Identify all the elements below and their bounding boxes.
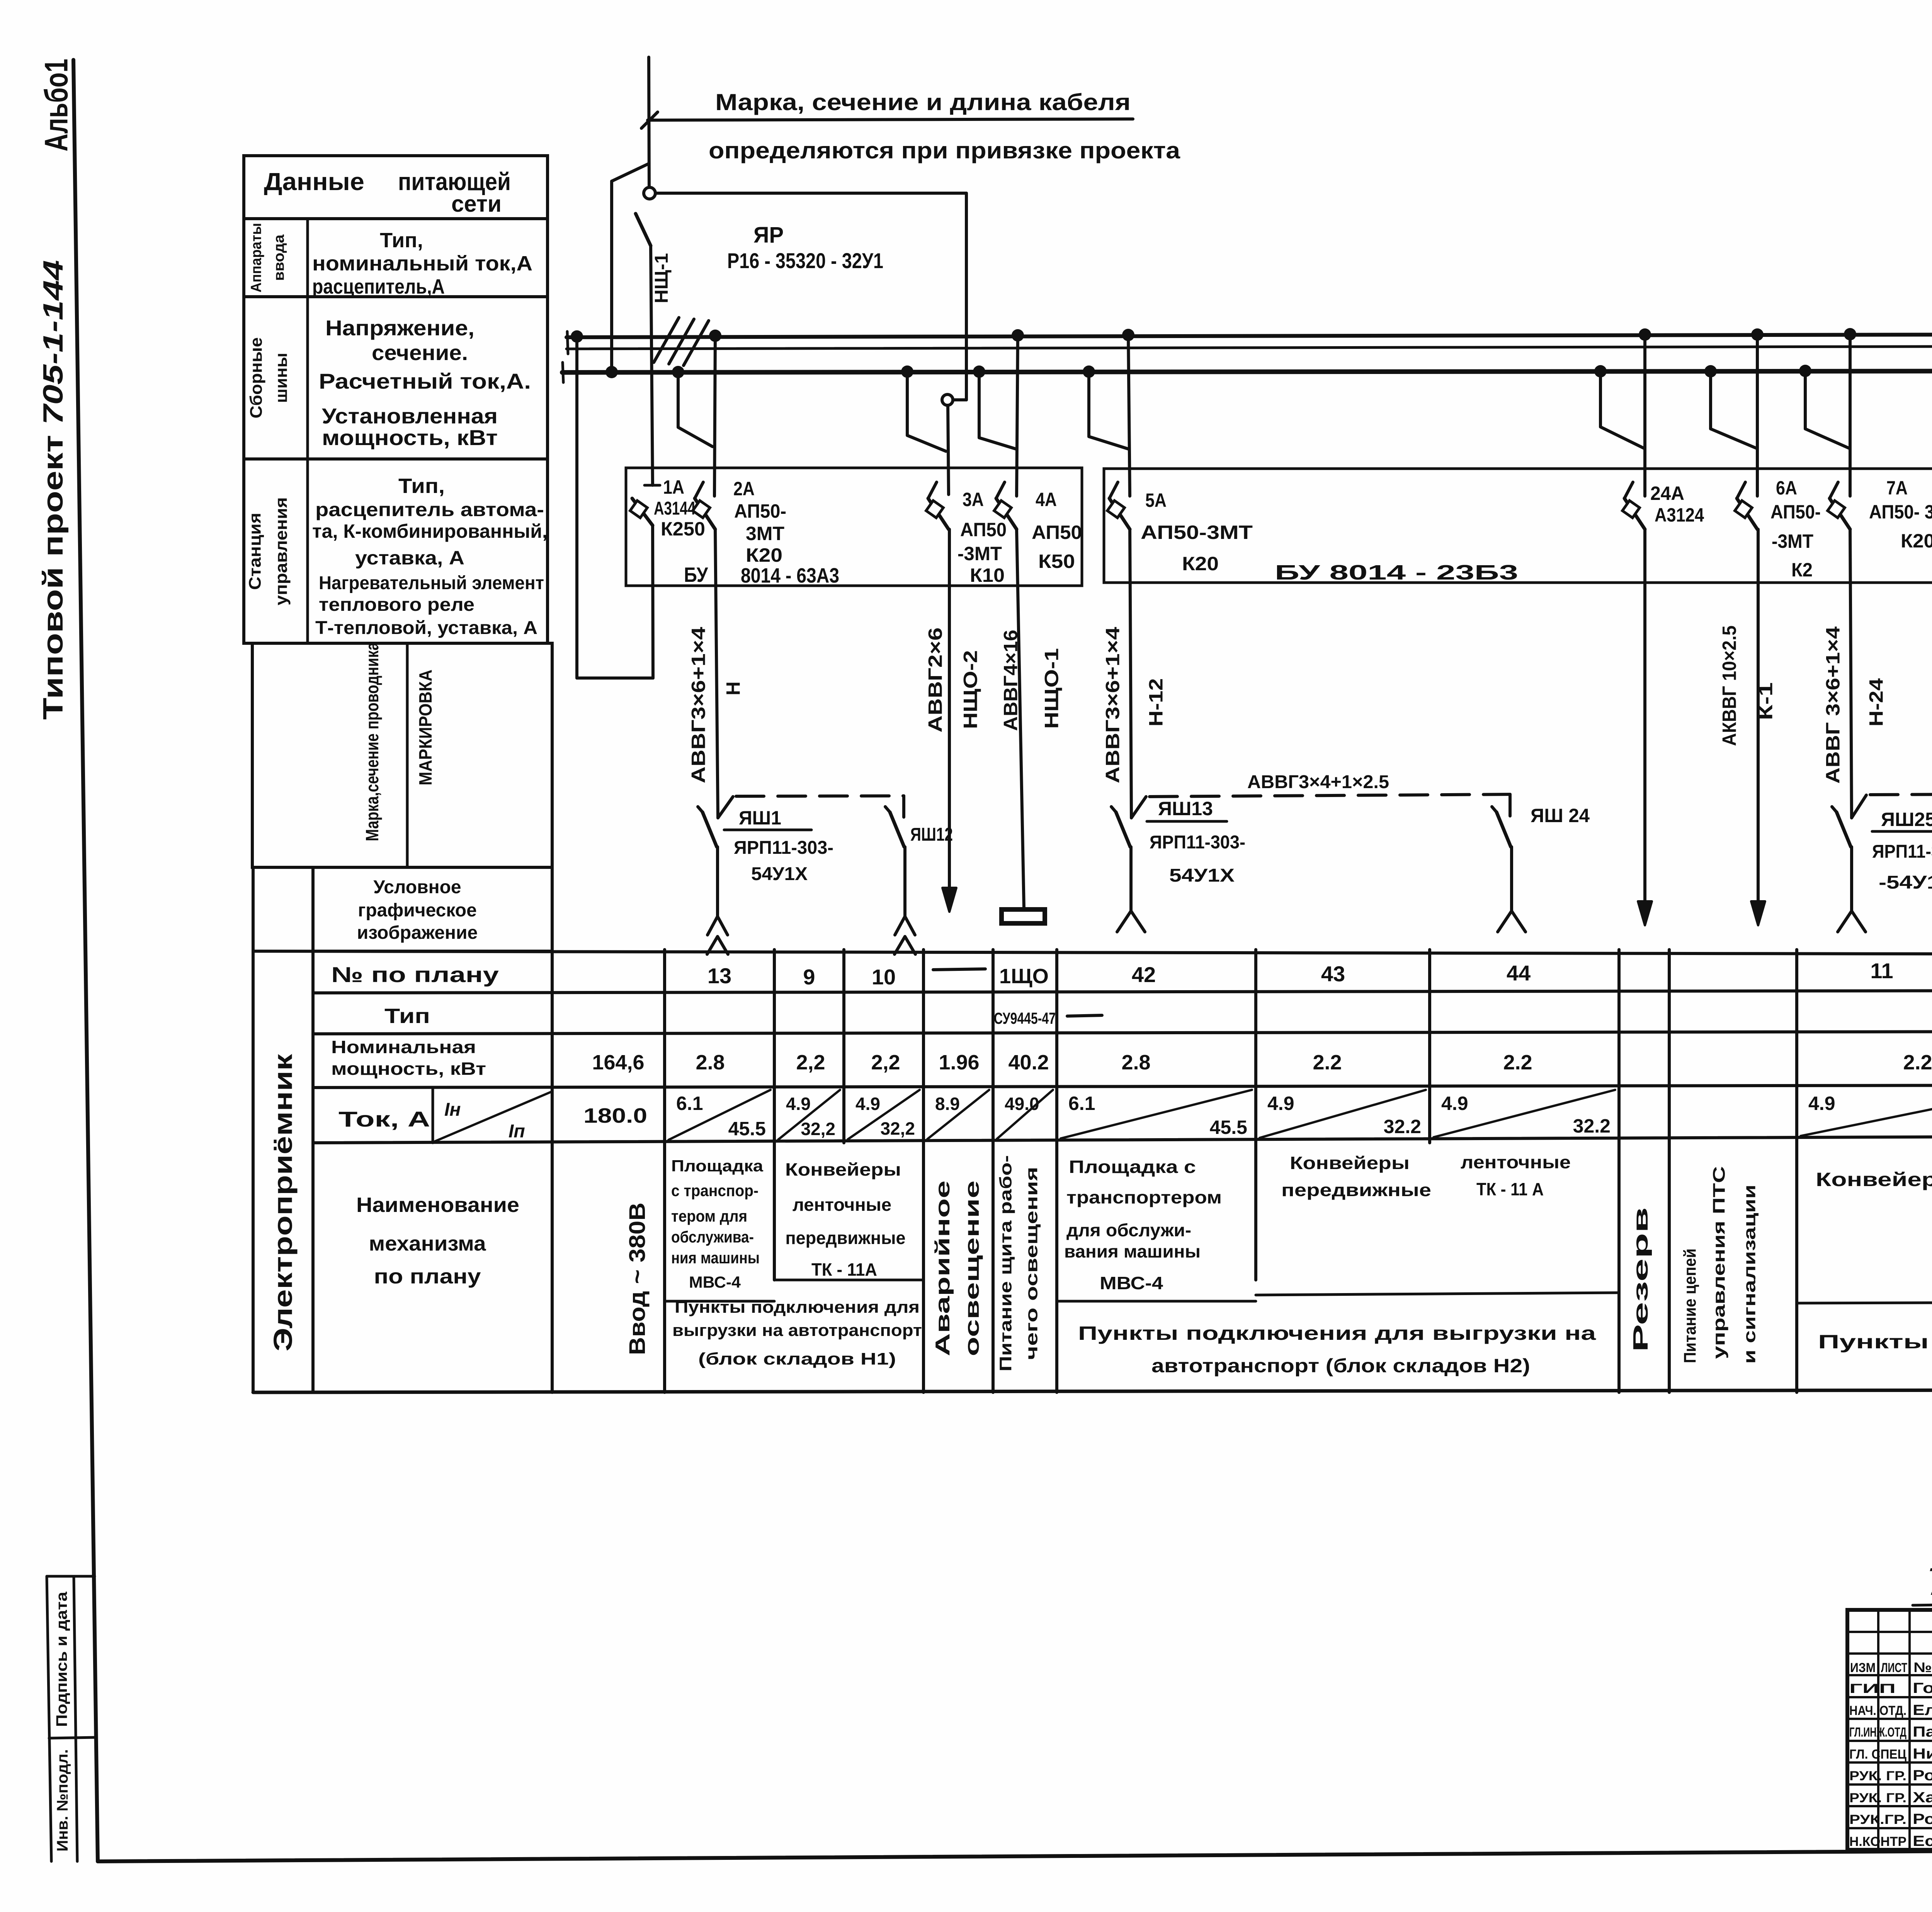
svg-text:32,2: 32,2: [880, 1118, 915, 1139]
feeder 7А drop from double bus: [1849, 334, 1852, 496]
cable break slash on incoming line: [641, 112, 658, 128]
svg-text:Н.КОНТР: Н.КОНТР: [1849, 1834, 1906, 1849]
header row: Аппараты ввода: [244, 219, 548, 297]
sheet frame bottom border line: [98, 1847, 1932, 1861]
current cell diagonal: [927, 1090, 989, 1139]
svg-text:МАРКИРОВКА: МАРКИРОВКА: [415, 670, 435, 785]
svg-text:Пункты подключения для: Пункты подключения для: [675, 1298, 920, 1317]
svg-text:Условное: Условное: [373, 877, 461, 897]
svg-text:с транспор-: с транспор-: [671, 1181, 759, 1200]
svg-text:Конвейеры ленточные передвиж: Конвейеры ленточные передвиж-: [1816, 1169, 1932, 1190]
plug connector symbol: [1850, 847, 1853, 911]
svg-text:ЯШ12: ЯШ12: [910, 824, 953, 845]
svg-text:номинальный ток,А: номинальный ток,А: [312, 252, 532, 275]
svg-text:45.5: 45.5: [728, 1118, 766, 1140]
table row line under мощность: [313, 1084, 1932, 1088]
title block vertical lines (left part): [1877, 1610, 1879, 1850]
header table: Данные питающей сети box: [244, 156, 548, 219]
svg-text:Ток, А: Ток, А: [338, 1107, 430, 1131]
svg-text:ленточные: ленточные: [793, 1195, 891, 1215]
svg-text:управления: управления: [272, 497, 291, 605]
svg-text:44: 44: [1507, 961, 1531, 985]
feeder 6А drop from double bus: [1756, 335, 1759, 496]
svg-text:2,2: 2,2: [796, 1051, 825, 1074]
feeder arrow head: [948, 529, 951, 889]
dashed cable riser to ЯШ1: [718, 797, 733, 818]
current cell diagonal: [848, 1090, 920, 1139]
svg-text:ТК - 11А: ТК - 11А: [811, 1259, 877, 1280]
svg-text:ЯШ25: ЯШ25: [1881, 809, 1932, 830]
dashed cable riser to ЯШ13: [1131, 797, 1146, 818]
plug connector symbol: [1129, 847, 1133, 911]
svg-text:расцепитель автома-: расцепитель автома-: [315, 499, 544, 520]
svg-text:№ по плану: № по плану: [331, 962, 499, 987]
svg-text:К20: К20: [1182, 553, 1219, 574]
svg-text:6.1: 6.1: [1068, 1093, 1095, 1114]
svg-text:Iп: Iп: [509, 1121, 525, 1142]
svg-text:1А: 1А: [663, 476, 684, 498]
table top line: [253, 951, 1932, 955]
svg-text:обслужива-: обслужива-: [671, 1228, 754, 1246]
svg-text:АП50-: АП50-: [1770, 501, 1821, 523]
svg-text:К10: К10: [970, 564, 1005, 586]
junction dots on double bus: [571, 330, 583, 343]
svg-text:32.2: 32.2: [1573, 1115, 1611, 1137]
feeder 2А drop from double bus: [714, 336, 715, 496]
svg-text:ГИП: ГИП: [1849, 1681, 1896, 1696]
tap jog 4А from single bus: [979, 372, 1016, 449]
svg-text:сети: сети: [451, 191, 502, 217]
plug connector symbol: [716, 847, 719, 916]
breaker blade top tick: [996, 482, 1005, 498]
svg-text:6А: 6А: [1776, 477, 1797, 499]
panel symbol 1ЩО (bar): [1002, 909, 1045, 923]
svg-text:СУ9445-47: СУ9445-47: [994, 1009, 1056, 1027]
svg-text:ленточные: ленточные: [1461, 1152, 1571, 1172]
svg-text:Напряжение,: Напряжение,: [325, 316, 474, 340]
svg-text:для обслужи-: для обслужи-: [1066, 1220, 1191, 1240]
svg-text:Станция: Станция: [246, 513, 265, 590]
svg-text:164,6: 164,6: [592, 1051, 644, 1074]
plug connector symbol: [1510, 847, 1513, 911]
svg-text:Установленная: Установленная: [322, 404, 498, 428]
busbar: double line (lower): [566, 345, 1932, 349]
svg-text:АВВГ 3×6+1×4: АВВГ 3×6+1×4: [1822, 626, 1844, 783]
svg-text:ГЛ. СПЕЦ: ГЛ. СПЕЦ: [1849, 1747, 1906, 1762]
svg-text:Марка,сечение проводника: Марка,сечение проводника: [362, 642, 382, 841]
ЯР wire down to 3А feeder: [965, 193, 968, 400]
breaker blade: [1624, 498, 1645, 529]
svg-text:определяются при привязке п: определяются при привязке проекта: [709, 138, 1180, 163]
svg-text:ЯРП11-303: ЯРП11-303: [1872, 841, 1932, 862]
svg-text:РУК. ГР.: РУК. ГР.: [1849, 1791, 1906, 1805]
sub-row split line right (пункты ж.д.): [1797, 1301, 1932, 1303]
tap jog 24А from single bus: [1600, 371, 1644, 448]
svg-text:8.9: 8.9: [935, 1094, 960, 1114]
svg-text:БУ 8014 - 23Б3: БУ 8014 - 23Б3: [1275, 561, 1518, 584]
svg-text:49.0: 49.0: [1005, 1094, 1039, 1114]
sub-row split line left (пункты подключения Н1): [665, 1300, 774, 1303]
feeder 4А drop from double bus: [1017, 335, 1018, 496]
svg-text:автотранспорт (блок складов: автотранспорт (блок складов Н2): [1151, 1355, 1530, 1377]
svg-text:транспортером: транспортером: [1066, 1187, 1222, 1207]
wire 5А below БУ box: [1130, 529, 1131, 818]
svg-text:Наименование: Наименование: [356, 1193, 519, 1217]
header row: Условное графическое изображение box: [313, 867, 552, 951]
svg-text:32.2: 32.2: [1384, 1116, 1421, 1137]
svg-text:Тип: Тип: [384, 1004, 430, 1028]
junction dots on single bus: [605, 366, 618, 378]
breaker 1А incoming: [645, 484, 660, 487]
svg-text:К50: К50: [1038, 551, 1075, 572]
dashed cable riser to ЯШ25: [1852, 795, 1866, 818]
table column lines: [551, 643, 554, 1392]
table row line under Ток,А: [313, 1134, 1932, 1143]
tap jog 6А from single bus: [1711, 371, 1756, 448]
svg-text:Н: Н: [723, 682, 744, 695]
svg-text:К20: К20: [746, 544, 782, 566]
svg-text:4.9: 4.9: [1441, 1093, 1468, 1114]
svg-text:выгрузки на автотранспорт: выгрузки на автотранспорт: [672, 1321, 922, 1340]
breaker blade: [1830, 498, 1850, 529]
feeder arrow head: [1757, 529, 1760, 902]
control station box БУ 8014-63А3: [626, 468, 1082, 586]
svg-text:8014 - 63А3: 8014 - 63А3: [741, 564, 839, 587]
svg-text:Есина: Есина: [1913, 1833, 1932, 1849]
svg-text:3МТ: 3МТ: [746, 523, 784, 544]
breaker release square: [1828, 501, 1845, 518]
svg-text:54У1Х: 54У1Х: [751, 864, 808, 884]
svg-text:Н-24: Н-24: [1866, 678, 1887, 726]
wire 4А below БУ box to щит 1ЩО: [1017, 529, 1024, 909]
svg-text:ЛИСТ: ЛИСТ: [1881, 1660, 1907, 1675]
svg-text:Пункты подключения для: Пункты подключения для выгрузки на: [1078, 1322, 1597, 1344]
wire from node to 3А breaker: [948, 405, 949, 495]
svg-text:Iн: Iн: [444, 1100, 461, 1120]
svg-text:НЩО-1: НЩО-1: [1041, 648, 1063, 729]
svg-text:9: 9: [803, 965, 815, 989]
breaker release square: [630, 501, 648, 518]
wire: 1А down and loop to double bus: [653, 525, 653, 678]
svg-text:уставка, А: уставка, А: [355, 547, 464, 569]
ЯШ switch blade: [890, 812, 904, 847]
svg-text:К250: К250: [661, 518, 705, 540]
svg-text:АВВГ2×6: АВВГ2×6: [925, 627, 946, 733]
svg-text:НАЧ. ОТД.: НАЧ. ОТД.: [1849, 1703, 1906, 1718]
ЯШ switch blade: [1497, 812, 1511, 847]
wire 7А below БУ box: [1850, 529, 1852, 818]
svg-text:40.2: 40.2: [1008, 1051, 1049, 1074]
svg-text:изображение: изображение: [357, 923, 478, 943]
breaker blade top tick: [928, 482, 937, 498]
svg-text:БУ: БУ: [684, 563, 708, 586]
svg-text:5А: 5А: [1145, 489, 1167, 511]
svg-text:Питание щита рабо-: Питание щита рабо-: [997, 1155, 1015, 1372]
ЯШ24 corner piece: [1509, 794, 1512, 816]
svg-text:-54У1Х: -54У1Х: [1879, 872, 1932, 893]
busbar: double line (upper): [566, 333, 1932, 337]
svg-text:4.9: 4.9: [855, 1094, 880, 1114]
svg-text:ЯРП11-303-: ЯРП11-303-: [734, 838, 833, 858]
current cell diagonal: [778, 1090, 840, 1140]
svg-text:А3144: А3144: [654, 498, 696, 519]
main single busbar: [562, 371, 1932, 372]
svg-text:механизма: механизма: [369, 1232, 486, 1255]
note underline: [648, 119, 1133, 120]
svg-text:мощность, кВт: мощность, кВт: [322, 425, 498, 450]
svg-text:ния машины: ния машины: [671, 1249, 760, 1267]
breaker release square: [994, 501, 1012, 518]
single bus left end tick: [563, 362, 563, 382]
current cell diagonal: [668, 1090, 770, 1140]
header row: Сборные шины: [244, 297, 548, 459]
breaker release square: [1107, 501, 1125, 518]
svg-text:11: 11: [1870, 959, 1893, 983]
breaker release square: [1622, 501, 1640, 518]
svg-text:Типовой проект 705-1-144: Типовой проект 705-1-144: [38, 260, 69, 720]
svg-text:передвижные: передвижные: [1281, 1180, 1431, 1200]
svg-text:2.8: 2.8: [1121, 1051, 1150, 1074]
dashed shared cable ЯШ13-ЯШ24: [1150, 794, 1510, 797]
svg-text:Пункты подключения для: Пункты подключения для выгрузки на: [1818, 1331, 1932, 1353]
svg-text:Данные: Данные: [264, 168, 364, 195]
svg-text:Н-12: Н-12: [1145, 678, 1167, 727]
svg-text:2.2: 2.2: [1903, 1051, 1932, 1074]
svg-text:(блок складов Н1): (блок складов Н1): [698, 1349, 896, 1368]
svg-text:Романенко: Романенко: [1913, 1811, 1932, 1827]
svg-text:К-1: К-1: [1755, 682, 1777, 720]
control station box БУ 8014-23Б3: [1104, 469, 1932, 583]
breaker release square: [693, 501, 710, 518]
svg-text:АП50-: АП50-: [734, 500, 786, 522]
svg-text:ЯШ1: ЯШ1: [739, 807, 781, 829]
svg-text:ЯР: ЯР: [753, 223, 784, 248]
svg-text:Конвейеры: Конвейеры: [785, 1159, 901, 1179]
svg-text:Нагревательный элемент: Нагревательный элемент: [319, 573, 544, 593]
ЯШ12 corner piece: [902, 796, 905, 817]
svg-text:РУК.ГР.: РУК.ГР.: [1849, 1812, 1906, 1827]
svg-text:Площадка с: Площадка с: [1069, 1157, 1196, 1177]
svg-text:Никитин: Никитин: [1913, 1746, 1932, 1762]
svg-text:РУК. ГР.: РУК. ГР.: [1849, 1769, 1906, 1783]
ЯШ switch blade: [1116, 812, 1130, 847]
svg-text:управления ПТС: управления ПТС: [1710, 1166, 1729, 1359]
svg-text:Сборные: Сборные: [247, 337, 266, 418]
breaker blade: [996, 498, 1017, 529]
switch НЩ-1 blade: [636, 214, 651, 246]
svg-text:ЯШ 24: ЯШ 24: [1531, 805, 1590, 826]
current cell diagonal: [997, 1090, 1053, 1139]
svg-text:7835/4: 7835/4: [1924, 1560, 1932, 1603]
svg-text:чего освещения: чего освещения: [1022, 1167, 1041, 1360]
bus hatch marks ///: [654, 318, 679, 362]
svg-text:А3124: А3124: [1655, 504, 1704, 526]
svg-text:по плану: по плану: [374, 1265, 481, 1288]
svg-text:графическое: графическое: [358, 900, 477, 921]
bypass wire from single bus to incoming: [610, 181, 613, 371]
title block outer box: [1847, 1610, 1932, 1850]
ЯР distribution box wire (horizontal): [655, 192, 966, 195]
svg-text:Тип,: Тип,: [380, 229, 423, 252]
svg-text:АВВГ3×6+1×4: АВВГ3×6+1×4: [1102, 627, 1124, 783]
breaker blade: [928, 498, 949, 529]
svg-text:54У1Х: 54У1Х: [1169, 865, 1235, 886]
svg-text:1.96: 1.96: [939, 1051, 979, 1074]
svg-text:-3МТ: -3МТ: [957, 543, 1002, 564]
node circle at НЩ-1 switch: [644, 187, 655, 199]
svg-text:АП50-3МТ: АП50-3МТ: [1141, 522, 1253, 543]
svg-text:АКВВГ 10×2.5: АКВВГ 10×2.5: [1719, 625, 1740, 746]
svg-text:К20: К20: [1901, 530, 1932, 552]
breaker blade top tick: [1737, 482, 1745, 498]
svg-text:32,2: 32,2: [801, 1119, 835, 1139]
svg-text:Конвейеры: Конвейеры: [1290, 1153, 1410, 1173]
svg-text:1ЩО: 1ЩО: [999, 965, 1049, 988]
breaker blade top tick: [1624, 482, 1633, 498]
svg-text:АВВГ3×4+1×2.5: АВВГ3×4+1×2.5: [1247, 772, 1389, 792]
header row: Марка,сечение проводника / Маркировка: [252, 643, 552, 867]
svg-text:Харчевская: Харчевская: [1913, 1790, 1932, 1806]
svg-text:Марка, сечение и длина каб: Марка, сечение и длина кабеля: [715, 89, 1131, 115]
breaker blade top tick: [695, 482, 703, 498]
svg-text:Инв. №подл.: Инв. №подл.: [54, 1749, 71, 1852]
dashed shared cable ЯШ25-ЯШ32: [1870, 793, 1932, 795]
svg-text:6.1: 6.1: [676, 1093, 703, 1114]
svg-text:Подпись и дата: Подпись и дата: [53, 1591, 70, 1727]
ЯШ switch blade: [1837, 812, 1851, 847]
svg-text:та, К-комбинированный,: та, К-комбинированный,: [312, 520, 548, 542]
title block horizontal lines (left part): [1847, 1631, 1932, 1633]
svg-text:45.5: 45.5: [1210, 1117, 1247, 1138]
breaker blade: [1737, 498, 1757, 529]
svg-text:НЩ-1: НЩ-1: [651, 253, 672, 303]
svg-text:К2: К2: [1791, 559, 1813, 581]
svg-text:4.9: 4.9: [1808, 1093, 1835, 1114]
svg-text:МВС-4: МВС-4: [689, 1273, 741, 1291]
svg-text:4А: 4А: [1036, 489, 1057, 510]
breaker blade top tick: [1830, 482, 1838, 498]
tap jog 7А from single bus: [1805, 371, 1849, 448]
svg-text:3А: 3А: [963, 489, 984, 510]
svg-text:АП50- 3МТ: АП50- 3МТ: [1869, 501, 1932, 523]
tap jog 3А from single bus: [907, 372, 946, 451]
svg-text:ввода: ввода: [271, 234, 287, 281]
breaker blade: [695, 498, 715, 529]
current cell diagonal: [1260, 1090, 1426, 1138]
current cell diagonal: [1801, 1090, 1932, 1136]
svg-text:сечение.: сечение.: [372, 340, 468, 365]
breaker blade: [632, 498, 653, 525]
svg-text:освещение: освещение: [961, 1181, 983, 1356]
svg-text:мощность, кВт: мощность, кВт: [331, 1059, 486, 1079]
table bottom line: [253, 1389, 1932, 1392]
current cell diagonal: [1061, 1090, 1252, 1139]
svg-text:№ ДОКУМ.: № ДОКУМ.: [1913, 1659, 1932, 1675]
svg-text:2.8: 2.8: [696, 1051, 724, 1074]
svg-text:Питание цепей: Питание цепей: [1681, 1249, 1700, 1363]
svg-text:Гоголев: Гоголев: [1913, 1680, 1932, 1696]
svg-text:2А: 2А: [733, 478, 755, 500]
svg-text:Площадка: Площадка: [671, 1157, 764, 1175]
svg-text:2.2: 2.2: [1503, 1051, 1532, 1074]
table row line under Тип: [313, 1031, 1932, 1034]
sub-row split line middle (пункты подключения Н2): [1057, 1300, 1256, 1303]
breaker blade top tick: [1109, 482, 1118, 498]
breaker blade: [1109, 498, 1130, 529]
svg-text:Альбо1: Альбо1: [38, 59, 75, 151]
svg-text:Ввод ~ 380В: Ввод ~ 380В: [625, 1203, 650, 1355]
busbar left end cap: [567, 331, 568, 354]
svg-text:4.9: 4.9: [1267, 1093, 1294, 1114]
current cell diagonal: [1434, 1090, 1615, 1137]
svg-text:ЯШ13: ЯШ13: [1158, 798, 1213, 819]
svg-text:ГЛ.ИНЖ.ОТД: ГЛ.ИНЖ.ОТД: [1849, 1725, 1906, 1740]
svg-text:ИЗМ: ИЗМ: [1850, 1660, 1876, 1675]
svg-text:АВВГ3×6+1×4: АВВГ3×6+1×4: [688, 627, 709, 783]
tap jog 5А from single bus: [1089, 372, 1128, 449]
feeder arrow head: [1643, 529, 1646, 902]
breaker release square: [926, 501, 944, 518]
svg-text:180.0: 180.0: [583, 1104, 647, 1127]
bottom-left margin box: Подпись и дата: [47, 1576, 51, 1861]
table row line under № по плану: [313, 990, 1932, 993]
svg-text:Электроприёмник: Электроприёмник: [268, 1054, 298, 1351]
svg-text:ЯРП11-303-: ЯРП11-303-: [1150, 832, 1245, 853]
svg-text:АП50: АП50: [960, 519, 1007, 540]
svg-text:Панкин: Панкин: [1913, 1724, 1932, 1740]
svg-text:МВС-4: МВС-4: [1100, 1273, 1163, 1293]
plug connector symbol: [903, 847, 906, 916]
svg-text:НЩО-2: НЩО-2: [960, 650, 981, 729]
svg-text:и сигнализации: и сигнализации: [1740, 1185, 1759, 1364]
svg-text:вания машины: вания машины: [1064, 1241, 1201, 1261]
vertical label Электроприёмник: [252, 867, 255, 1392]
svg-text:2,2: 2,2: [871, 1051, 900, 1074]
svg-text:теплового реле: теплового реле: [319, 595, 474, 615]
svg-text:Аппараты: Аппараты: [248, 223, 265, 292]
breaker release square: [1735, 501, 1752, 518]
svg-text:Резерв: Резерв: [1629, 1207, 1652, 1352]
ЯШ switch blade: [702, 812, 717, 847]
svg-text:43: 43: [1321, 962, 1345, 986]
svg-text:Елистратова: Елистратова: [1913, 1702, 1932, 1718]
svg-text:АВВГ4×16: АВВГ4×16: [1000, 630, 1022, 731]
svg-text:Тип,: Тип,: [398, 474, 445, 498]
dashed shared cable ЯШ1-ЯШ12: [736, 796, 904, 796]
svg-text:4.9: 4.9: [786, 1094, 811, 1114]
svg-text:-3МТ: -3МТ: [1772, 530, 1813, 552]
svg-text:Номинальная: Номинальная: [331, 1037, 476, 1057]
wire from НЩ-1 to breaker 1А: [651, 246, 653, 485]
svg-text:42: 42: [1132, 962, 1156, 987]
wire 2А below БУ box: [715, 529, 718, 818]
tap jog 2А from single bus: [678, 372, 713, 447]
sheet frame left border line: [73, 60, 98, 1861]
svg-text:Р16 - 35320 - 32У1: Р16 - 35320 - 32У1: [727, 248, 883, 273]
feeder 24А drop from double bus: [1643, 335, 1646, 496]
incoming supply cable (vertical): [649, 57, 649, 187]
svg-text:ТК - 11 А: ТК - 11 А: [1476, 1179, 1544, 1199]
svg-text:Т-тепловой, уставка, А: Т-тепловой, уставка, А: [315, 618, 537, 638]
svg-text:2.2: 2.2: [1313, 1051, 1342, 1074]
svg-text:АП50: АП50: [1032, 522, 1082, 543]
svg-text:передвижные: передвижные: [786, 1228, 906, 1248]
svg-text:7А: 7А: [1886, 477, 1908, 499]
svg-text:Родионова: Родионова: [1913, 1768, 1932, 1784]
feeder 5А drop from double bus: [1128, 335, 1130, 496]
svg-text:тером для: тером для: [671, 1207, 747, 1225]
svg-text:10: 10: [872, 965, 896, 989]
